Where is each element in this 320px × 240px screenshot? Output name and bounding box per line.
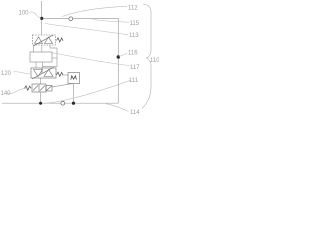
svg-text:115: 115	[130, 21, 140, 27]
svg-text:114: 114	[130, 110, 140, 116]
svg-text:112: 112	[128, 5, 138, 11]
svg-text:110: 110	[150, 58, 159, 64]
svg-text:120: 120	[1, 71, 12, 77]
svg-text:113: 113	[129, 33, 139, 39]
svg-text:117: 117	[130, 65, 140, 71]
svg-text:111: 111	[129, 78, 139, 84]
svg-text:116: 116	[128, 50, 138, 56]
svg-text:140: 140	[1, 91, 12, 97]
svg-text:100: 100	[19, 11, 30, 17]
